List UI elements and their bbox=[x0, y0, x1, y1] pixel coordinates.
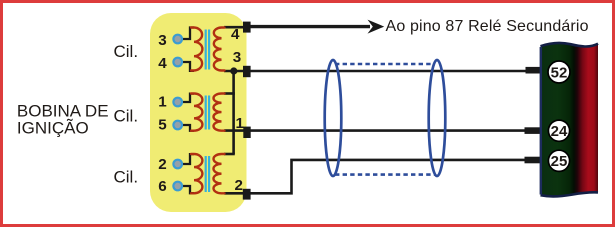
svg-text:3: 3 bbox=[158, 32, 166, 49]
svg-text:1: 1 bbox=[158, 94, 167, 111]
svg-text:IGNIÇÃO: IGNIÇÃO bbox=[17, 119, 89, 138]
svg-text:6: 6 bbox=[158, 178, 166, 195]
svg-text:Ao pino 87 Relé Secundário: Ao pino 87 Relé Secundário bbox=[386, 18, 589, 35]
svg-text:4: 4 bbox=[231, 26, 240, 43]
svg-text:Cil.: Cil. bbox=[114, 42, 139, 61]
svg-text:4: 4 bbox=[158, 55, 167, 72]
svg-text:5: 5 bbox=[158, 117, 167, 134]
svg-text:25: 25 bbox=[551, 153, 568, 170]
svg-text:2: 2 bbox=[234, 177, 242, 194]
svg-text:Cil.: Cil. bbox=[114, 107, 139, 126]
svg-text:3: 3 bbox=[233, 49, 241, 66]
svg-text:1: 1 bbox=[235, 115, 244, 132]
svg-text:52: 52 bbox=[551, 64, 568, 81]
svg-text:Cil.: Cil. bbox=[114, 168, 139, 187]
svg-text:2: 2 bbox=[158, 156, 166, 173]
svg-text:24: 24 bbox=[551, 123, 568, 140]
